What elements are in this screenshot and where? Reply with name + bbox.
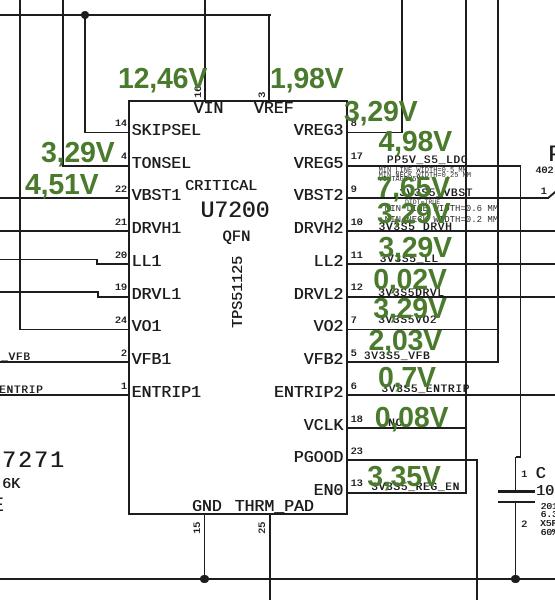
pin number 25 — [259, 521, 269, 533]
voltage annotation 4,51V — [25, 171, 98, 200]
pin name VREG3 — [294, 123, 344, 140]
voltage annotation 3,29V — [41, 139, 114, 168]
pin number 19 — [115, 284, 127, 294]
wire THRM_PAD pin 25 drop — [269, 514, 271, 600]
wire cap top lead — [515, 457, 517, 491]
pin number 15 — [194, 521, 204, 533]
net 3V3S5_VBST — [399, 189, 473, 200]
pin number 8 — [351, 120, 357, 130]
pin name LL1 — [132, 254, 162, 271]
wire LL1 jog — [96, 259, 98, 264]
wire top rail net VIN — [0, 14, 271, 16]
wire DRVL1 outer — [0, 291, 99, 293]
net 3V3S5_LL — [380, 255, 439, 266]
refdes 7271 (cut resistor R7271) — [2, 450, 66, 473]
pin number 12 — [351, 284, 363, 294]
wire VREG3 riser at x402 — [401, 0, 403, 133]
refdes C (cut at edge) — [536, 466, 546, 483]
pin name DRVL1 — [132, 287, 182, 304]
resistor pin 1 — [541, 188, 547, 198]
wire VFB2 pin 5 net 3V3S5_VFB — [346, 361, 499, 363]
net 3V3S5_VFB — [364, 352, 431, 363]
pin name DRVH1 — [132, 221, 182, 238]
pin name VIN — [194, 101, 224, 118]
pin name THRM_PAD — [235, 499, 314, 516]
pin name DRVL2 — [294, 287, 344, 304]
pin name DRVH2 — [294, 221, 344, 238]
wire VO1 pin 24 — [20, 329, 129, 331]
wire VBST1 pin 22 — [0, 197, 129, 199]
pin number 14 — [115, 120, 127, 130]
pin name VO2 — [313, 319, 343, 336]
pin number 6 — [351, 383, 357, 393]
pin name PGOOD — [294, 450, 344, 467]
net 3V3S5_ENTRIP — [381, 385, 470, 396]
wire DRVH2 pin 10 net 3V3S5_DRVH — [346, 230, 555, 232]
pin number 1 — [121, 383, 127, 393]
pin name EN0 — [313, 483, 343, 500]
wire EN0 pin 13 net 3V3S5_REG_EN — [346, 492, 466, 494]
pin number 21 — [115, 219, 127, 229]
capacitor C plate 1 — [498, 490, 535, 492]
wire ENTRIP2 pin 6 net 3V3S5_ENTRIP — [346, 394, 555, 396]
wire LL1 pin 20 — [96, 263, 129, 265]
wire DRVL1 jog — [97, 292, 99, 297]
capacitor pin 2 — [521, 521, 527, 531]
pin name VREF — [254, 101, 294, 118]
wire VREF pin 3 — [268, 15, 270, 102]
wire vertical feed TONSEL at x63 — [62, 0, 64, 167]
net NC — [388, 419, 403, 430]
voltage annotation 7,65V — [377, 174, 450, 203]
pin number 13 — [351, 480, 363, 490]
wire vertical feed at x20 — [19, 0, 21, 330]
wire DRVL1 pin 19 — [97, 296, 129, 298]
pin name VBST2 — [294, 188, 344, 205]
pin number 9 — [351, 186, 357, 196]
pin number 2 — [121, 350, 127, 360]
wire SKIPSEL to pin 14 — [85, 132, 130, 134]
note VOLTAGE=5V — [379, 177, 421, 184]
value 60 (cut) — [541, 528, 555, 538]
voltage annotation 3,29V — [373, 295, 446, 324]
net 3V3S5_DRVH — [378, 223, 452, 234]
value 402 (resistor) — [535, 167, 553, 177]
wire VBST2 pin 9 to resistor — [346, 197, 548, 199]
wire VO2-VFB2 link at x498 — [497, 0, 499, 363]
pin number 10 — [351, 219, 363, 229]
capacitor pin 1 — [521, 471, 527, 481]
net 3V3S5VO2 — [378, 316, 437, 327]
wire PGOOD drop at x477 — [476, 460, 478, 600]
pin number 17 — [351, 153, 363, 163]
pin name VREG5 — [294, 156, 344, 173]
pin number 4 — [121, 153, 127, 163]
voltage annotation 4,98V — [379, 128, 452, 157]
value X5R (cut) — [540, 519, 555, 529]
capacitor C plate 2 — [498, 501, 535, 503]
voltage annotation 0,02V — [373, 266, 446, 295]
voltage annotation 0,08V — [375, 404, 448, 433]
voltage annotation 3,29V — [377, 200, 450, 229]
pin name VFB2 — [304, 352, 344, 369]
pin number 22 — [115, 186, 127, 196]
wire TONSEL pin 4 — [63, 165, 129, 167]
value 20.. (cut) — [541, 502, 555, 512]
wire VREG5 drop to cap at x520 — [520, 166, 522, 458]
wire bottom ground rail — [0, 578, 555, 580]
pin name VBST1 — [132, 188, 182, 205]
wire SKIPSEL drop — [84, 15, 86, 133]
voltage annotation 12,46V — [118, 65, 207, 94]
pin name VFB1 — [132, 352, 172, 369]
value 6.3 (cut) — [541, 510, 555, 520]
pin name LL2 — [313, 254, 343, 271]
wire LL2 pin 11 net 3V3S5_LL — [346, 263, 555, 265]
wire VO2 pin 7 net 3V3S5VO2 — [346, 329, 499, 331]
pin number 23 — [351, 448, 363, 458]
value TPS51125 (rotated) — [231, 255, 246, 327]
net _VFB (cut) — [1, 353, 31, 364]
net ENTRIP (cut) — [0, 386, 43, 397]
wire DRVL2 pin 12 net 3V3S5DRVL — [346, 296, 555, 298]
label QFN — [222, 230, 250, 246]
wire ENTRIP1 pin 1 net ENTRIP — [0, 394, 129, 396]
voltage annotation 0,7V — [378, 364, 436, 393]
net 3V3S5_REG_EN — [371, 483, 460, 494]
pin name ENTRIP1 — [132, 385, 201, 402]
voltage annotation 3,29V — [378, 234, 451, 263]
wire VIN pin 16 — [204, 0, 206, 102]
net PP5V_S5_LDO — [387, 156, 468, 167]
pin number 7 — [351, 317, 357, 327]
junction cap to rail — [511, 575, 520, 584]
note MIN NECK WIDTH=0.2 MM — [385, 216, 498, 225]
pin name VO1 — [132, 319, 162, 336]
pin name GND — [192, 499, 222, 516]
value 10 (cut) — [536, 484, 554, 499]
partial glyph at left edge — [0, 497, 4, 517]
value 6K (cut) — [2, 477, 20, 492]
wire VFB1 pin 2 net _VFB — [0, 361, 129, 363]
wire VREG3 pin 8 — [346, 132, 403, 134]
pin number 18 — [351, 416, 363, 426]
wire PGOOD pin 23 — [346, 459, 478, 461]
pin number 11 — [351, 252, 363, 262]
pin number 24 — [115, 317, 127, 327]
pin number 20 — [115, 252, 127, 262]
pin name TONSEL — [132, 156, 191, 173]
pin name ENTRIP2 — [274, 385, 343, 402]
pin name VCLK — [304, 418, 344, 435]
pin number 5 — [351, 350, 357, 360]
wire DRVH1 pin 21 — [0, 230, 129, 232]
net 3V3S5DRVL — [378, 289, 445, 300]
label CRITICAL — [185, 179, 257, 194]
note DIDT=TRUE — [405, 200, 440, 207]
resistor PR lead zigzag start — [547, 191, 555, 199]
junction SKIPSEL tap — [81, 11, 89, 19]
wire cap bottom lead — [515, 502, 517, 580]
voltage annotation 3,35V — [367, 463, 440, 492]
junction GND to rail — [200, 575, 209, 584]
pin name SKIPSEL — [132, 123, 201, 140]
wire cap jog — [516, 456, 522, 458]
voltage annotation 3,29V — [344, 98, 417, 127]
note MIN NECK WIDTH=0.25 MM — [379, 173, 471, 180]
note MIN LINE WIDTH=0.6 MM — [385, 205, 498, 214]
refdes P (resistor, cut) — [548, 144, 555, 167]
op-amp U7200 TPS51125 body — [128, 100, 348, 515]
voltage annotation 2,03V — [369, 327, 442, 356]
wire EN0 riser at x466 — [465, 0, 467, 494]
voltage annotation 1,98V — [270, 65, 343, 94]
refdes U7200 — [200, 200, 269, 223]
wire LL1 outer — [0, 259, 98, 261]
note MIN LINE WIDTH=0.5 MM — [379, 168, 467, 175]
wire VCLK pin 18 NC stub — [346, 427, 466, 429]
pin number 16 — [195, 86, 205, 98]
pin number 3 — [259, 92, 269, 98]
wire VREG5 pin 17 net PP5V_S5_LDO — [346, 165, 521, 167]
wire GND pin 15 drop — [204, 514, 206, 579]
